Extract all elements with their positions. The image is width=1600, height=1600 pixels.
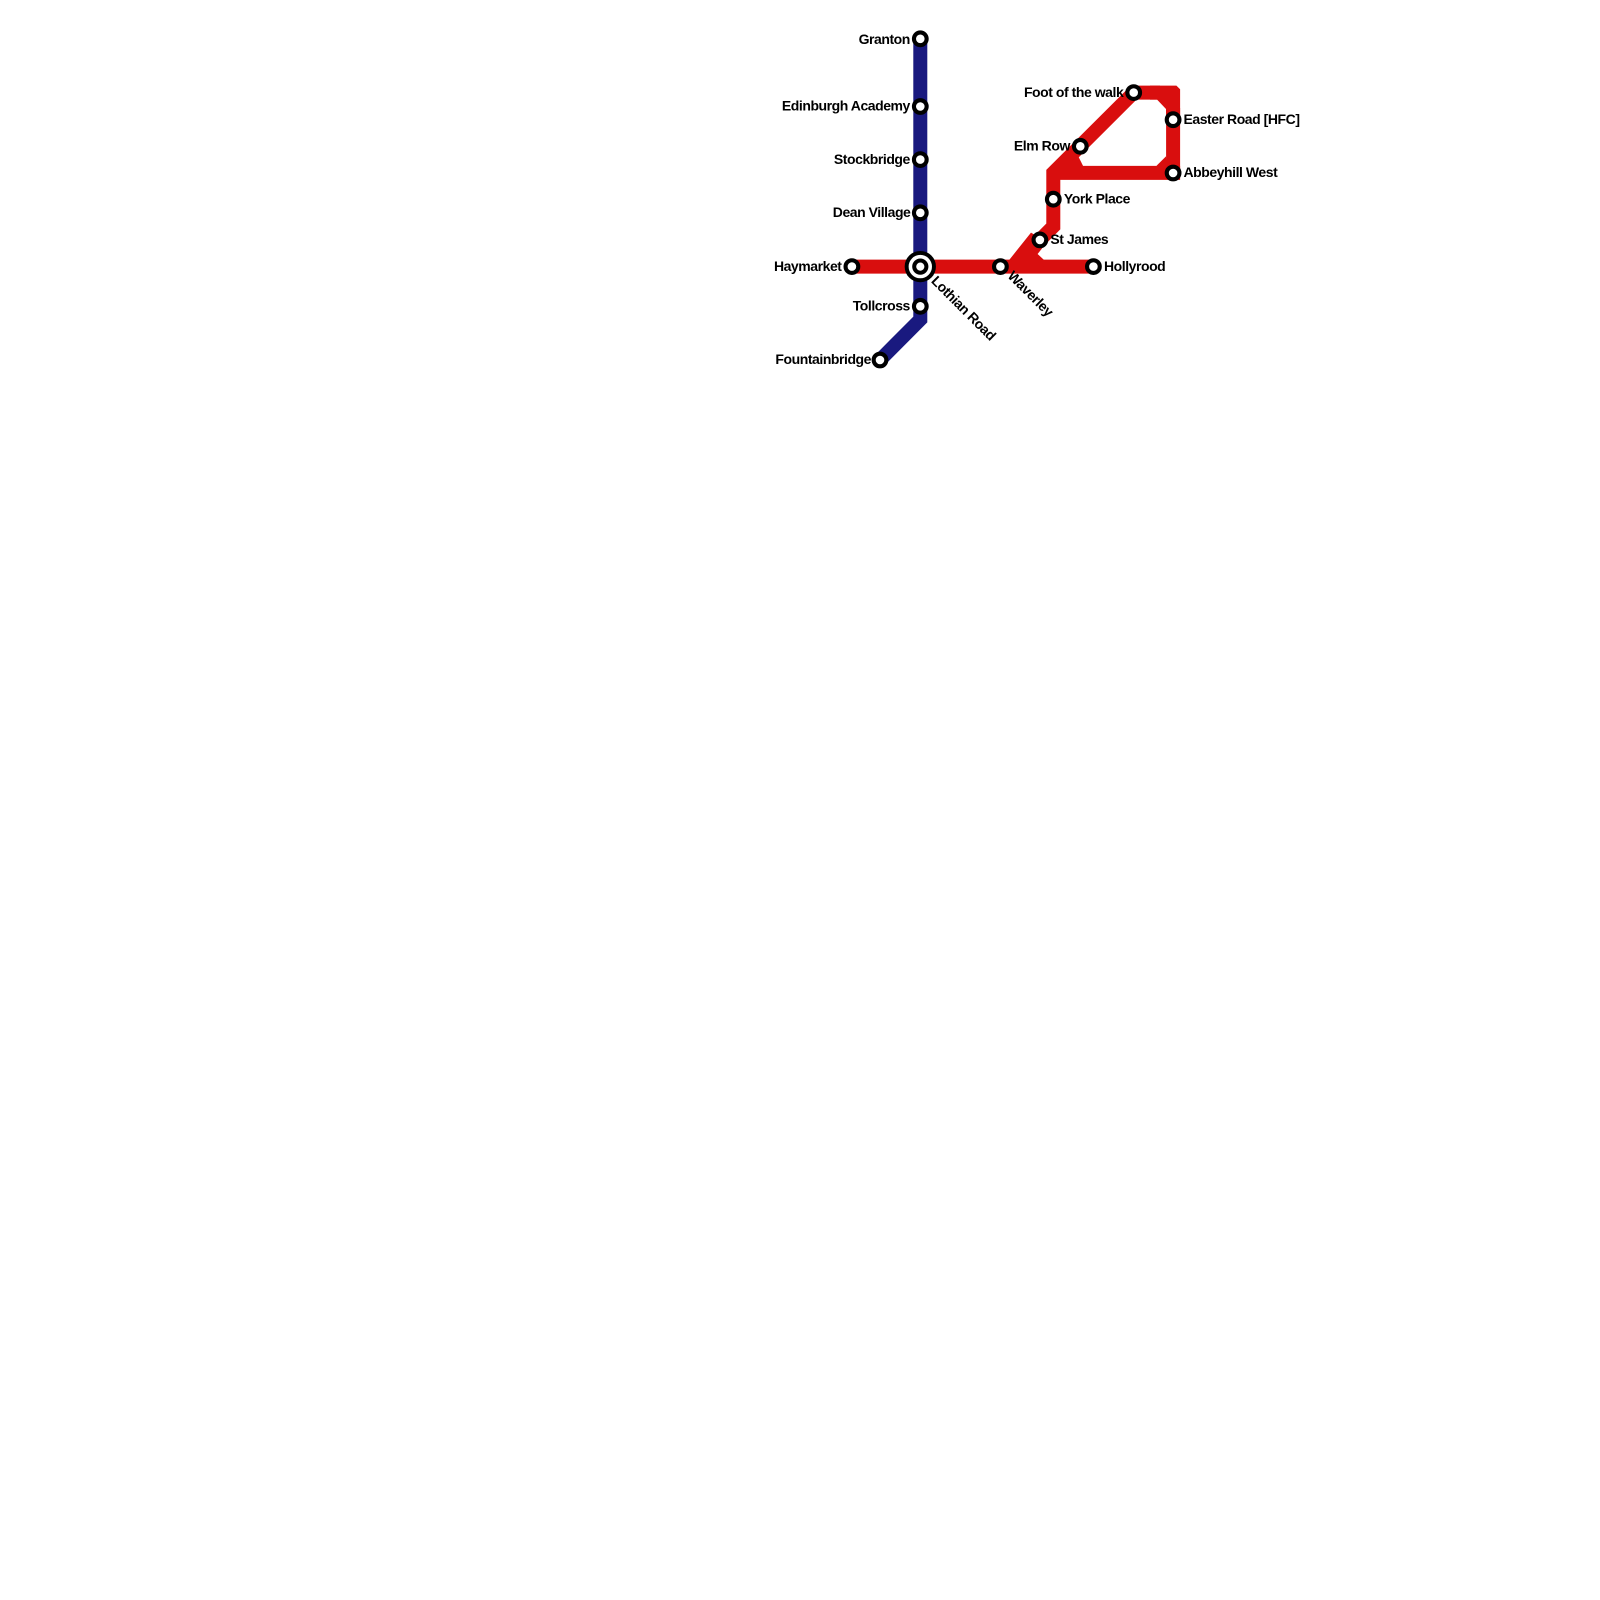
station Haymarket — [846, 260, 859, 273]
station Foot of the walk — [1127, 86, 1140, 99]
svg-text:Haymarket: Haymarket — [774, 258, 842, 274]
station Easter Road [HFC] — [1167, 113, 1180, 126]
svg-text:Stockbridge: Stockbridge — [834, 151, 911, 167]
station Abbeyhill West — [1167, 167, 1180, 180]
interchange Lothian Road outer ring — [907, 253, 934, 280]
station Hollyrood — [1087, 260, 1100, 273]
wire: red main horizontal Haymarket to Hollyrood — [852, 260, 1094, 274]
node: red loop top-right corner piece — [1150, 86, 1180, 115]
svg-text:St James: St James — [1050, 231, 1109, 247]
wire: red loop St James, York Place, Elm Row diagonal to Foot of the walk — [1040, 93, 1160, 240]
station Dean Village — [914, 206, 927, 219]
station Edinburgh Academy — [914, 100, 927, 113]
station Tollcross — [914, 300, 927, 313]
svg-text:Hollyrood: Hollyrood — [1104, 258, 1165, 274]
wire: red loop vertical through Easter Road to Abbeyhill West — [1166, 108, 1180, 173]
station St James — [1034, 234, 1047, 247]
svg-text:Abbeyhill West: Abbeyhill West — [1184, 164, 1279, 180]
svg-text:Easter Road [HFC]: Easter Road [HFC] — [1184, 111, 1300, 127]
svg-text:Tollcross: Tollcross — [853, 298, 911, 314]
node: red jut triangle at loop corner — [1068, 156, 1084, 166]
node: junction wedge at Waverley — [1004, 233, 1045, 267]
svg-text:Foot of the walk: Foot of the walk — [1024, 84, 1124, 100]
station Elm Row — [1074, 140, 1087, 153]
svg-text:Granton: Granton — [859, 31, 910, 47]
station Granton — [914, 32, 927, 45]
station York Place — [1047, 193, 1060, 206]
svg-text:Edinburgh Academy: Edinburgh Academy — [782, 98, 911, 114]
station Waverley — [994, 260, 1007, 273]
station Fountainbridge — [874, 354, 887, 367]
svg-text:York Place: York Place — [1064, 190, 1131, 206]
svg-text:Elm Row: Elm Row — [1014, 138, 1071, 154]
svg-text:Fountainbridge: Fountainbridge — [775, 351, 871, 367]
station Stockbridge — [914, 153, 927, 166]
interchange Lothian Road inner ring — [914, 261, 926, 273]
node: inner chamfer fill at Abbeyhill West corner — [1156, 156, 1167, 167]
svg-text:Dean Village: Dean Village — [833, 204, 911, 220]
wire: blue line Granton to Fountainbridge — [880, 39, 920, 360]
wire: red loop bottom horizontal Abbeyhill West to corner — [1058, 166, 1180, 180]
